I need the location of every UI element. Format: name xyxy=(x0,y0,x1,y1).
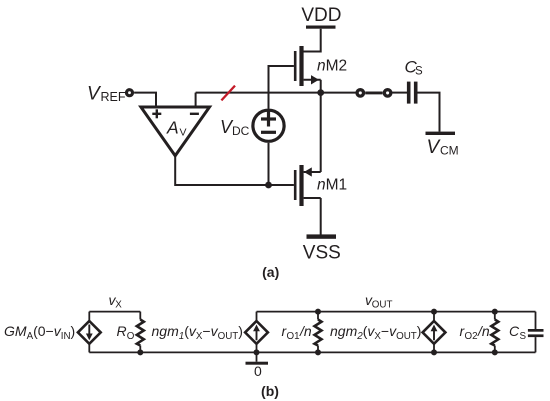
svg-text:O: O xyxy=(127,331,135,342)
svg-text:C: C xyxy=(509,323,520,339)
wire: GMA top stub xyxy=(88,312,90,321)
svg-text:O1: O1 xyxy=(287,331,300,342)
svg-text:A: A xyxy=(166,118,179,138)
svg-text:V: V xyxy=(180,126,187,138)
source GMA xyxy=(78,321,101,344)
wire: switch to CS xyxy=(392,92,407,94)
svg-text:VSS: VSS xyxy=(303,242,341,263)
capacitor CS (a) xyxy=(407,82,418,104)
wire: nM2 gate lead xyxy=(269,66,294,93)
svg-text:S: S xyxy=(520,331,527,342)
junction: rO2 top xyxy=(492,309,498,315)
svg-text:nM2: nM2 xyxy=(317,58,347,75)
junction: ngm2 bottom xyxy=(431,349,437,355)
label ngm1(vX-vOUT) xyxy=(152,323,243,342)
wire: ngm1 top stub xyxy=(256,312,258,321)
svg-text:nM1: nM1 xyxy=(317,177,347,194)
resistor RO xyxy=(137,312,144,353)
junction: rO1 top xyxy=(315,309,321,315)
wire: bottom rail xyxy=(89,351,535,353)
source ngm1 xyxy=(245,321,268,344)
label RO xyxy=(117,323,135,342)
wire: op-amp - input stub xyxy=(195,93,197,106)
power VDD label xyxy=(301,5,341,26)
resistor rO1/n xyxy=(315,312,322,353)
wire: vX top rail xyxy=(89,311,140,313)
node vOUT label xyxy=(365,292,392,310)
wire: ngm1 bottom stub xyxy=(256,344,258,352)
wire: CS to VCM xyxy=(418,93,440,132)
junction: gate node xyxy=(265,182,272,189)
label VREF xyxy=(87,84,126,105)
wire: nM2 source down to output node xyxy=(320,80,322,93)
power VSS rail bar xyxy=(307,234,337,238)
wire: feedback from - input to output node xyxy=(196,92,357,94)
svg-text:VDD: VDD xyxy=(301,5,341,26)
label (a) xyxy=(262,264,279,280)
ground VCM bar xyxy=(426,132,456,135)
wire: node to VDC top xyxy=(268,93,270,109)
node vX label xyxy=(109,292,123,310)
label nM1 xyxy=(317,177,347,194)
wire: GMA bottom stub xyxy=(88,344,90,352)
label AV xyxy=(166,118,187,139)
junction: rO2 bottom xyxy=(492,349,498,355)
junction: ngm1 bottom xyxy=(254,349,260,355)
label ngm2(vX-vOUT) xyxy=(330,323,421,342)
svg-text:CM: CM xyxy=(440,144,459,158)
label rO2/n xyxy=(460,323,490,342)
transistor nM1 xyxy=(294,165,321,206)
wire: VDD bar to nM2 drain xyxy=(304,29,321,52)
label CS (b) xyxy=(509,323,527,342)
break mark (red slash) xyxy=(221,86,235,101)
svg-text:(b): (b) xyxy=(261,383,279,399)
wire: nM1 source to VSS bar xyxy=(320,198,322,235)
svg-text:(a): (a) xyxy=(262,264,279,280)
power VSS label xyxy=(303,242,341,263)
wire: VDC bottom to gate node xyxy=(268,143,270,185)
wire: op-amp output to nM1 gate xyxy=(175,156,294,185)
svg-text:/n: /n xyxy=(299,323,312,339)
wire: ngm2 bottom stub xyxy=(433,344,435,352)
source VDC xyxy=(253,110,284,141)
svg-text:S: S xyxy=(415,66,423,78)
wire: output node to nM1 drain xyxy=(320,93,322,172)
svg-text:X: X xyxy=(115,299,122,310)
svg-text:O2: O2 xyxy=(465,331,478,342)
svg-text:ngm2(vX−vOUT): ngm2(vX−vOUT) xyxy=(330,323,421,342)
wire: ngm2 top stub xyxy=(433,312,435,321)
label CS (a) xyxy=(405,58,424,78)
wire: VREF terminal to op-amp + input xyxy=(134,93,156,106)
wire: vOUT top rail xyxy=(257,311,536,313)
terminal VREF xyxy=(125,88,134,97)
svg-text:/n: /n xyxy=(477,323,490,339)
transistor nM2 xyxy=(294,46,321,86)
junction: RO bottom xyxy=(137,349,143,355)
label rO1/n xyxy=(282,323,312,342)
svg-text:ngm1(vX−vOUT): ngm1(vX−vOUT) xyxy=(152,323,243,342)
label GMA(0-vIN) xyxy=(4,323,75,342)
op-amp AV xyxy=(141,107,210,156)
svg-text:0: 0 xyxy=(254,363,262,379)
switch S1 xyxy=(355,88,392,98)
label VDC xyxy=(220,117,250,138)
power VDD rail bar xyxy=(306,26,336,29)
svg-text:GMA(0−vIN): GMA(0−vIN) xyxy=(4,323,75,342)
label nM2 xyxy=(317,58,347,75)
resistor rO2/n xyxy=(491,312,498,353)
svg-text:OUT: OUT xyxy=(372,299,393,310)
svg-text:R: R xyxy=(117,323,127,339)
ground 0 xyxy=(246,352,269,379)
capacitor CS (b) xyxy=(528,312,544,353)
label VCM xyxy=(427,137,459,158)
svg-text:DC: DC xyxy=(232,124,250,138)
svg-text:REF: REF xyxy=(101,90,126,104)
junction: ngm2 top xyxy=(431,309,437,315)
label (b) xyxy=(261,383,279,399)
junction: rO1 bottom xyxy=(315,349,321,355)
junction: output node xyxy=(317,89,324,96)
source ngm2 xyxy=(423,321,446,344)
